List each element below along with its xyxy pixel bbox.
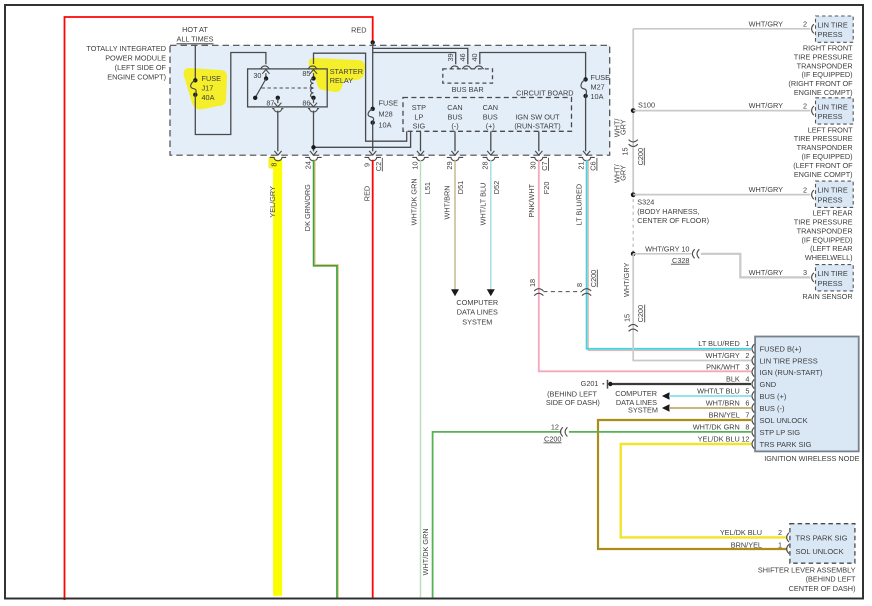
bus bar pin 46 connector [462, 66, 472, 69]
svg-text:C200: C200 [636, 305, 645, 322]
arrow can bus minus to computer data lines [451, 289, 459, 296]
svg-text:WHT/DK GRN: WHT/DK GRN [421, 528, 430, 575]
wire WHT/GRY branch to C328 [633, 253, 691, 255]
shifter pin 2 trs park sig [787, 533, 789, 542]
svg-text:GRY: GRY [619, 119, 628, 135]
svg-text:POWER MODULE: POWER MODULE [105, 54, 166, 63]
wire WHT/GRY to ignition node pin 2 [633, 254, 751, 361]
svg-text:WHT/LT BLU: WHT/LT BLU [479, 183, 488, 226]
svg-text:4: 4 [745, 374, 749, 383]
svg-text:SOL UNLOCK: SOL UNLOCK [796, 547, 844, 556]
svg-text:8: 8 [575, 283, 584, 287]
connector C200 on PNK/WHT wire [534, 289, 543, 291]
wire WHT/BRN bus minus [669, 407, 751, 409]
svg-text:39: 39 [446, 53, 455, 61]
wire fuse M27 to exit 21 [585, 96, 587, 151]
svg-text:IGNITION WIRELESS NODE: IGNITION WIRELESS NODE [764, 454, 859, 463]
svg-text:2: 2 [778, 528, 782, 537]
splice S100 [631, 108, 636, 113]
wire WHT/LT BLU bus plus [669, 395, 751, 397]
svg-text:WHT/GRY: WHT/GRY [749, 101, 783, 110]
svg-text:SIDE OF DASH): SIDE OF DASH) [546, 398, 600, 407]
svg-text:STP LP SIG: STP LP SIG [760, 428, 801, 437]
svg-text:(IF EQUIPPED): (IF EQUIPPED) [802, 152, 853, 161]
connector C200 on WHT/GRY [629, 140, 638, 142]
wire BLK ground to node pin 4 [612, 383, 751, 385]
svg-text:ENGINE COMPT): ENGINE COMPT) [794, 170, 853, 179]
svg-text:PNK/WHT: PNK/WHT [527, 183, 536, 217]
svg-text:LIN TIRE: LIN TIRE [818, 269, 848, 278]
svg-text:85: 85 [302, 69, 310, 78]
rain sensor box [816, 265, 854, 291]
svg-text:ENGINE COMPT): ENGINE COMPT) [794, 88, 853, 97]
svg-text:(RIGHT FRONT OF: (RIGHT FRONT OF [788, 79, 853, 88]
svg-text:SYSTEM: SYSTEM [462, 317, 492, 326]
svg-text:(BEHIND LEFT: (BEHIND LEFT [806, 575, 856, 584]
svg-text:WHT/GRY: WHT/GRY [705, 351, 739, 360]
svg-text:S100: S100 [638, 101, 655, 110]
svg-text:21: 21 [576, 161, 585, 169]
svg-text:RIGHT FRONT: RIGHT FRONT [803, 44, 853, 53]
wire LT BLU/RED fused b+ [588, 160, 751, 350]
wire BRN/YEL sol unlock [598, 420, 787, 549]
svg-text:28: 28 [481, 161, 490, 169]
svg-text:C2: C2 [374, 162, 383, 171]
svg-text:COMPUTER: COMPUTER [456, 298, 498, 307]
wire red junction to fuse M28 [372, 53, 374, 109]
svg-text:D51: D51 [456, 181, 465, 194]
svg-text:(BODY HARNESS,: (BODY HARNESS, [637, 207, 699, 216]
connector C200 lower on WHT/GRY [629, 325, 638, 327]
svg-text:F20: F20 [542, 182, 551, 195]
tire pressure transponder box [816, 181, 854, 207]
highlight over pin 8 label [269, 157, 276, 169]
svg-text:CIRCUIT BOARD: CIRCUIT BOARD [516, 88, 573, 97]
svg-text:WHT/GRY: WHT/GRY [749, 185, 783, 194]
svg-text:29: 29 [445, 161, 454, 169]
svg-text:(IF EQUIPPED): (IF EQUIPPED) [802, 235, 853, 244]
TIPM exit connector [310, 151, 317, 155]
wire can bus minus to exit 29 [454, 131, 456, 151]
svg-text:WHT/GRY 10: WHT/GRY 10 [645, 245, 689, 254]
fuse M28 10A [371, 107, 375, 111]
svg-text:(-): (-) [451, 122, 458, 131]
arrow can bus plus to computer data lines [487, 289, 495, 296]
wire relay pin 86 to exit 24 and circuit board [313, 111, 315, 152]
svg-text:6: 6 [745, 398, 749, 407]
wire red hot feed [65, 17, 373, 600]
pin 30 entry connector [260, 66, 270, 69]
node junction pin 86 branch [311, 145, 315, 149]
wire WHT/BRN can bus minus [454, 160, 456, 290]
connector C200 tie line [544, 291, 583, 293]
wire relay pin 87 to exit 8 [277, 111, 279, 152]
svg-text:40: 40 [470, 53, 479, 61]
svg-text:9: 9 [363, 163, 372, 167]
wire WHT/LT BLU can bus plus [490, 160, 492, 290]
svg-text:TIRE PRESSURE: TIRE PRESSURE [794, 218, 853, 227]
svg-text:LIN TIRE: LIN TIRE [818, 186, 848, 195]
wire fuse J17 to relay pin 30 [195, 53, 266, 135]
node pin 12 TRS PARK SIG [752, 439, 754, 448]
shifter pin 1 sol unlock [787, 544, 789, 553]
circuit board box [403, 98, 572, 132]
svg-text:HOT AT: HOT AT [182, 25, 208, 34]
svg-text:FUSED B(+): FUSED B(+) [760, 345, 802, 354]
TIPM exit connector [369, 151, 376, 155]
svg-text:(RUN-START): (RUN-START) [514, 122, 560, 131]
svg-text:LP: LP [414, 112, 423, 121]
svg-text:L51: L51 [423, 182, 432, 194]
svg-text:10A: 10A [379, 121, 392, 130]
connector C200 on WHT/DK GRN [561, 427, 563, 436]
svg-text:12: 12 [551, 423, 559, 432]
splice S324 [631, 192, 636, 197]
svg-text:WHT/GRY: WHT/GRY [749, 268, 783, 277]
svg-text:PRESS: PRESS [818, 279, 843, 288]
svg-text:BUS: BUS [447, 112, 462, 121]
svg-text:WHEELWELL): WHEELWELL) [805, 253, 853, 262]
svg-text:CENTER OF FLOOR): CENTER OF FLOOR) [637, 216, 709, 225]
svg-text:2: 2 [803, 101, 807, 110]
relay coil [311, 76, 315, 80]
svg-text:(LEFT REAR: (LEFT REAR [810, 244, 852, 253]
svg-text:CAN: CAN [447, 103, 462, 112]
arrow bus minus from computer data lines [662, 404, 670, 411]
svg-text:WHT/DK GRN: WHT/DK GRN [410, 178, 419, 225]
svg-text:LT BLU/RED: LT BLU/RED [574, 184, 583, 226]
svg-text:BRN/YEL: BRN/YEL [731, 541, 762, 550]
node pin 8 STP LP SIG [752, 427, 754, 436]
svg-text:3: 3 [745, 362, 749, 371]
svg-text:RED: RED [351, 25, 366, 34]
svg-text:3: 3 [803, 268, 807, 277]
svg-text:2: 2 [803, 185, 807, 194]
svg-text:M27: M27 [591, 83, 605, 92]
TIPM exit connector [417, 151, 424, 155]
bus bar pin 40 connector [474, 66, 484, 69]
svg-text:40A: 40A [202, 93, 215, 102]
svg-text:SYSTEM: SYSTEM [628, 406, 658, 415]
starter relay box [248, 69, 328, 107]
wire WHT/GRY C328 to rain sensor [701, 254, 811, 278]
svg-text:FUSE: FUSE [379, 98, 399, 107]
svg-text:1: 1 [745, 339, 749, 348]
svg-text:FUSE: FUSE [591, 73, 611, 82]
svg-text:D52: D52 [492, 181, 501, 194]
svg-text:COMPUTER: COMPUTER [615, 389, 657, 398]
TIPM exit connector [535, 151, 542, 155]
svg-text:15: 15 [623, 314, 632, 322]
svg-text:BUS: BUS [483, 112, 498, 121]
svg-text:TRANSPONDER: TRANSPONDER [797, 143, 853, 152]
node red feed junction [371, 40, 375, 44]
svg-text:RAIN SENSOR: RAIN SENSOR [802, 292, 852, 301]
tire pressure transponder box [816, 16, 854, 42]
svg-text:G201: G201 [581, 379, 599, 388]
svg-text:86: 86 [302, 99, 310, 108]
wire WHT/GRY to right front transponder [633, 28, 810, 30]
svg-text:S324: S324 [637, 198, 654, 207]
node pin 4 GND [752, 379, 754, 388]
wire stp lp sig to exit 10 [420, 131, 422, 151]
wire bus bar pin 40 to fuse M27 [480, 53, 586, 80]
svg-text:2: 2 [803, 20, 807, 29]
svg-text:M28: M28 [379, 109, 393, 118]
wire can bus plus to exit 28 [490, 131, 492, 151]
svg-text:C7: C7 [540, 161, 549, 170]
bus bar pin 39 connector [450, 66, 460, 69]
ignition wireless node box [755, 337, 859, 452]
svg-text:PRESS: PRESS [818, 195, 843, 204]
svg-text:24: 24 [303, 161, 312, 169]
svg-text:5: 5 [745, 386, 749, 395]
svg-text:TOTALLY INTEGRATED: TOTALLY INTEGRATED [86, 44, 166, 53]
svg-text:DATA LINES: DATA LINES [457, 308, 498, 317]
TIPM exit connector [451, 151, 458, 155]
svg-text:BUS (+): BUS (+) [760, 392, 787, 401]
svg-text:LIN TIRE PRESS: LIN TIRE PRESS [760, 356, 818, 365]
svg-text:(+): (+) [486, 122, 495, 131]
fuse M27 10A [583, 77, 587, 81]
svg-text:PRESS: PRESS [818, 30, 843, 39]
node pin 3 IGN (RUN-START) [752, 367, 754, 376]
svg-text:YEL/DK BLU: YEL/DK BLU [698, 434, 740, 443]
svg-text:CAN: CAN [483, 103, 498, 112]
svg-text:STP: STP [412, 103, 426, 112]
svg-text:YEL/DK BLU: YEL/DK BLU [720, 528, 762, 537]
svg-text:10: 10 [410, 161, 419, 169]
svg-text:STARTER: STARTER [330, 67, 363, 76]
svg-text:FUSE: FUSE [202, 74, 222, 83]
svg-text:10A: 10A [591, 92, 604, 101]
svg-text:LT BLU/RED: LT BLU/RED [698, 339, 740, 348]
svg-text:SIG: SIG [413, 122, 426, 131]
svg-text:WHT/DK GRN: WHT/DK GRN [693, 422, 740, 431]
relay mechanical link [262, 87, 312, 89]
svg-text:(LEFT SIDE OF: (LEFT SIDE OF [115, 63, 167, 72]
svg-text:WHT/BRN: WHT/BRN [706, 398, 740, 407]
svg-text:C200: C200 [589, 270, 598, 287]
wire YEL/GRY highlighted [273, 160, 282, 596]
svg-text:J17: J17 [202, 83, 214, 92]
wire relay pin 85 to circuit board [314, 53, 407, 141]
svg-text:TIRE PRESSURE: TIRE PRESSURE [794, 134, 853, 143]
svg-text:C200: C200 [544, 434, 561, 443]
svg-text:7: 7 [745, 410, 749, 419]
wire red junction to bus bar pin 39 [373, 53, 456, 65]
svg-text:GND: GND [760, 380, 777, 389]
svg-text:C328: C328 [672, 256, 689, 265]
node rain sensor branch junction [631, 251, 636, 256]
highlight over starter relay label [309, 58, 365, 92]
svg-text:8: 8 [269, 163, 278, 167]
svg-text:C200: C200 [636, 148, 645, 165]
svg-text:12: 12 [741, 434, 749, 443]
svg-text:CENTER OF DASH): CENTER OF DASH) [789, 584, 856, 593]
wire YEL/DK BLU trs park sig [621, 444, 787, 537]
svg-text:30: 30 [253, 71, 261, 80]
svg-text:WHT/LT BLU: WHT/LT BLU [697, 386, 740, 395]
svg-text:IGN SW OUT: IGN SW OUT [515, 112, 560, 121]
wire DK GRN/ORG [315, 160, 338, 599]
svg-text:TRS PARK SIG: TRS PARK SIG [796, 533, 848, 542]
svg-text:LEFT REAR: LEFT REAR [813, 209, 853, 218]
svg-text:15: 15 [620, 147, 629, 155]
wire WHT/GRY S100 to left front transponder [633, 110, 810, 112]
svg-text:BUS (-): BUS (-) [760, 404, 786, 413]
svg-text:SOL UNLOCK: SOL UNLOCK [760, 416, 808, 425]
node pin 2 LIN TIRE PRESS [752, 356, 754, 365]
svg-text:LIN TIRE: LIN TIRE [818, 102, 848, 111]
shifter lever assembly box [790, 524, 855, 564]
wire WHT/DK GRN stop lamp [420, 160, 422, 599]
svg-text:TRANSPONDER: TRANSPONDER [797, 226, 853, 235]
arrow bus plus from computer data lines [662, 392, 670, 399]
totally integrated power module box [170, 45, 610, 155]
wire hot-at-all-times to fuse J17 [194, 45, 196, 80]
wire RED to bottom [372, 160, 374, 599]
svg-text:8: 8 [745, 422, 749, 431]
svg-text:(LEFT FRONT OF: (LEFT FRONT OF [793, 161, 853, 170]
svg-text:PRESS: PRESS [818, 112, 843, 121]
svg-text:RED: RED [362, 186, 371, 201]
wire red junction to bus bar pin 46 [373, 42, 468, 64]
svg-text:YEL/GRY: YEL/GRY [268, 186, 277, 218]
svg-text:(IF EQUIPPED): (IF EQUIPPED) [802, 70, 853, 79]
wire WHT/DK GRN stp lp sig [433, 432, 562, 599]
svg-text:TRANSPONDER: TRANSPONDER [797, 61, 853, 70]
node pin 7 SOL UNLOCK [752, 415, 754, 424]
wire PNK/WHT ign run-start [539, 160, 751, 371]
svg-text:BRN/YEL: BRN/YEL [709, 410, 740, 419]
connector C328 [692, 249, 694, 258]
svg-text:C6: C6 [588, 161, 597, 170]
svg-text:BLK: BLK [726, 374, 740, 383]
svg-text:PNK/WHT: PNK/WHT [706, 362, 740, 371]
svg-text:2: 2 [745, 351, 749, 360]
svg-text:IGN (RUN-START): IGN (RUN-START) [760, 368, 824, 377]
svg-text:LEFT FRONT: LEFT FRONT [808, 125, 853, 134]
TIPM exit connector [274, 151, 281, 155]
node pin 5 BUS (+) [752, 391, 754, 400]
svg-text:46: 46 [458, 53, 467, 61]
relay switch arm [255, 79, 266, 98]
svg-text:ALL TIMES: ALL TIMES [177, 35, 214, 44]
svg-text:RELAY: RELAY [330, 76, 354, 85]
highlight over fuse J17 [184, 68, 228, 109]
svg-text:TRS PARK SIG: TRS PARK SIG [760, 440, 812, 449]
svg-text:WHT/BRN: WHT/BRN [443, 185, 452, 219]
wire WHT/GRY S324 to left rear transponder [633, 194, 810, 196]
svg-text:WHT/GRY: WHT/GRY [622, 263, 631, 297]
svg-text:WHT/GRY: WHT/GRY [749, 19, 783, 28]
svg-text:1: 1 [778, 541, 782, 550]
wire WHT/GRY main vertical [632, 29, 634, 197]
node pin 1 FUSED B(+) [752, 344, 754, 353]
wire ign sw out to exit 30 [538, 131, 540, 151]
wire WHT/GRY dashed if-equipped segment [632, 199, 634, 252]
TIPM exit connector [487, 151, 494, 155]
svg-text:87: 87 [266, 99, 274, 108]
tire pressure transponder box [816, 98, 854, 124]
svg-text:LIN TIRE: LIN TIRE [818, 21, 848, 30]
svg-text:BUS BAR: BUS BAR [452, 85, 484, 94]
node pin 6 BUS (-) [752, 403, 754, 412]
svg-text:TIRE PRESSURE: TIRE PRESSURE [794, 52, 853, 61]
wire fuse M28 to exit 9 [372, 123, 374, 152]
svg-text:30: 30 [529, 161, 538, 169]
svg-text:GRY: GRY [619, 165, 628, 181]
svg-text:18: 18 [528, 279, 537, 287]
svg-text:DK GRN/ORG: DK GRN/ORG [303, 184, 312, 231]
svg-text:SHIFTER LEVER ASSEMBLY: SHIFTER LEVER ASSEMBLY [758, 565, 856, 574]
TIPM exit connector [583, 151, 590, 155]
svg-text:ENGINE COMPT): ENGINE COMPT) [107, 73, 166, 82]
fuse J17 40A [193, 78, 197, 82]
connector C200 on LT BLU/RED wire [582, 289, 591, 291]
bus bar [443, 69, 493, 83]
